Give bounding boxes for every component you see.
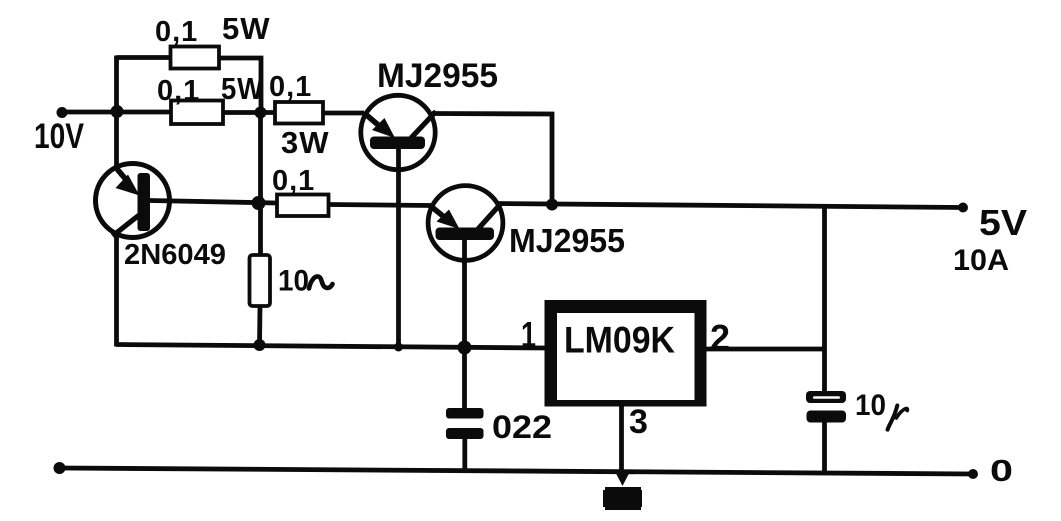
svg-text:2: 2 [710,317,730,358]
svg-text:5W: 5W [222,11,271,46]
svg-text:MJ2955: MJ2955 [509,222,625,259]
svg-text:10V: 10V [34,117,85,156]
svg-text:3W: 3W [281,125,330,160]
svg-text:0,1: 0,1 [269,71,312,103]
svg-text:3: 3 [629,403,648,441]
svg-text:022: 022 [492,409,552,445]
svg-text:10: 10 [855,389,886,422]
svg-text:0: 0 [990,453,1013,488]
svg-text:5W: 5W [221,71,264,106]
svg-text:0,1: 0,1 [272,165,315,197]
svg-text:10A: 10A [953,244,1009,277]
svg-text:LM09K: LM09K [564,320,675,361]
svg-text:2N6049: 2N6049 [124,239,226,271]
svg-text:1: 1 [521,314,536,355]
svg-text:0,1: 0,1 [155,16,198,48]
svg-text:5V: 5V [979,202,1027,243]
svg-text:10: 10 [278,265,309,298]
svg-text:0,1: 0,1 [157,75,200,107]
svg-text:MJ2955: MJ2955 [377,57,498,95]
